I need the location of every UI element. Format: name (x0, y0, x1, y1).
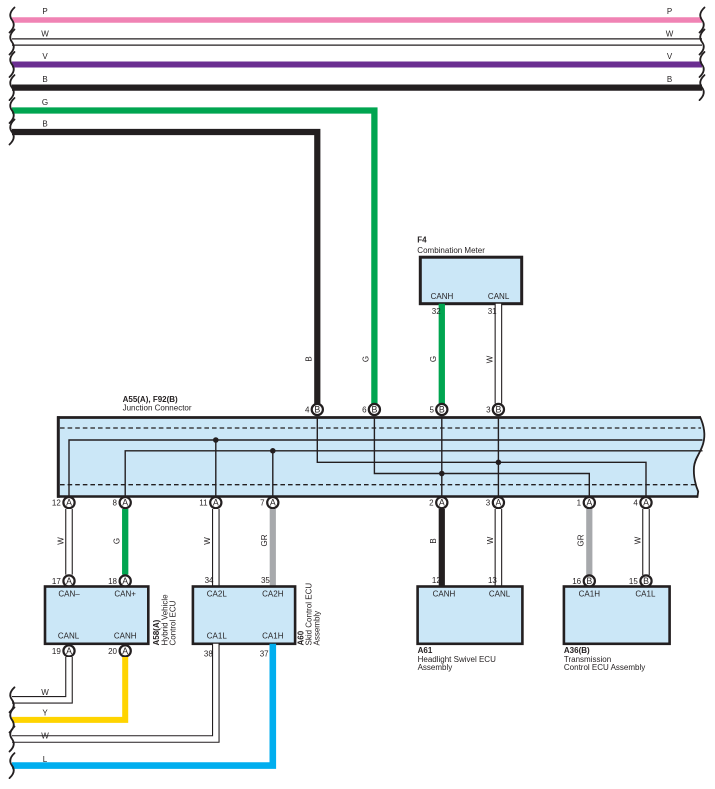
svg-text:B: B (314, 404, 320, 414)
svg-text:G: G (362, 356, 371, 362)
skid control ECU A60 box (193, 583, 322, 646)
pin 2 (A) (429, 497, 447, 508)
svg-text:CA1L: CA1L (207, 632, 228, 641)
svg-text:CA2L: CA2L (207, 589, 228, 598)
pin 17 (A) (52, 575, 75, 586)
pin 3 (A) (486, 497, 504, 508)
svg-text:8: 8 (113, 499, 118, 508)
svg-text:G: G (42, 98, 48, 107)
svg-text:B: B (429, 538, 438, 543)
pin 15 (B) (629, 575, 652, 586)
svg-text:CANH: CANH (114, 632, 137, 641)
junction dot on L1 at 11A (213, 437, 219, 443)
pin 1 (A) (577, 497, 595, 508)
svg-text:A: A (122, 646, 128, 656)
svg-text:Assembly: Assembly (418, 663, 453, 672)
break symbol right P (700, 8, 705, 33)
svg-text:34: 34 (205, 576, 214, 585)
wire W (A58 pin 19 down-left) (12, 657, 69, 700)
svg-text:W: W (486, 355, 495, 363)
pin 11 (A) (199, 497, 221, 508)
svg-text:A: A (586, 498, 592, 508)
svg-text:CA1H: CA1H (579, 589, 601, 598)
svg-text:A: A (495, 498, 501, 508)
svg-text:W: W (666, 30, 674, 39)
svg-text:A: A (643, 498, 649, 508)
pin 7 (A) (260, 497, 278, 508)
svg-text:GR: GR (260, 534, 269, 546)
break symbol left Y (10, 707, 15, 732)
svg-text:B: B (586, 576, 592, 586)
svg-text:A: A (66, 576, 72, 586)
break symbol left L (10, 753, 15, 778)
wire Y (A58 pin 20 down-left, yellow) (12, 657, 125, 720)
svg-text:3: 3 (486, 406, 491, 415)
internal wire 5B-2A vertical (441, 417, 443, 497)
svg-text:13: 13 (488, 576, 497, 585)
svg-text:CA1L: CA1L (635, 589, 656, 598)
svg-text:B: B (495, 404, 501, 414)
break symbol left B2 (10, 120, 15, 145)
wire GR (1A to A36 pin 16) (577, 509, 590, 575)
svg-text:V: V (667, 52, 673, 61)
junction dot on L4 at 5B vertical (439, 471, 445, 477)
svg-text:A61: A61 (418, 646, 433, 655)
svg-text:12: 12 (52, 499, 61, 508)
headlight swivel ECU A61 box (418, 587, 523, 672)
wire W (3A to A61 pin 13) (486, 509, 499, 587)
wire W (A60 pin 38 down-left) (12, 644, 216, 741)
svg-text:CANH: CANH (433, 589, 456, 598)
pin 4 (B) (305, 404, 323, 415)
svg-text:G: G (113, 538, 122, 544)
break symbol left W (bottom) (10, 687, 15, 712)
svg-text:Junction Connector: Junction Connector (123, 404, 192, 413)
svg-text:CANL: CANL (488, 292, 510, 301)
svg-text:A55(A), F92(B): A55(A), F92(B) (123, 395, 178, 404)
svg-text:W: W (41, 731, 49, 740)
pin 8 (A) (113, 497, 131, 508)
svg-text:B: B (667, 75, 672, 84)
internal bus wire L2 (8A-7A, continues right) (125, 451, 702, 497)
svg-text:F4: F4 (417, 236, 427, 245)
svg-text:35: 35 (261, 576, 270, 585)
svg-text:L: L (43, 755, 48, 764)
svg-text:A: A (439, 498, 445, 508)
svg-text:37: 37 (260, 650, 269, 659)
svg-text:Combination Meter: Combination Meter (417, 246, 485, 255)
wire W (12A to A58 pin 17) (56, 509, 69, 575)
junction dot on L2 at 7A (270, 448, 276, 454)
svg-text:18: 18 (108, 577, 117, 586)
svg-text:B: B (439, 404, 445, 414)
wire W (white bus, top row 2) (12, 30, 702, 43)
svg-text:31: 31 (488, 307, 497, 316)
svg-text:16: 16 (572, 577, 581, 586)
svg-text:W: W (41, 688, 49, 697)
break symbol right W (700, 30, 705, 55)
svg-text:Control ECU Assembly: Control ECU Assembly (564, 663, 645, 672)
break symbol right B (700, 75, 705, 100)
svg-text:3: 3 (486, 499, 491, 508)
break symbol left P (10, 8, 15, 33)
transmission control ECU A36(B) box (564, 587, 670, 672)
internal bus wire L4 (6B to 1A with tap 5B/2A) (374, 417, 589, 497)
dashed line bottom inside junction band (60, 484, 696, 486)
svg-text:7: 7 (260, 499, 265, 508)
wire B (2A to A61 pin 12) (429, 509, 442, 587)
combination meter F4 box (417, 236, 521, 304)
break symbol left V (10, 52, 15, 77)
wire G (8A to A58 pin 18) (113, 509, 126, 575)
svg-text:B: B (305, 356, 314, 361)
svg-text:W: W (486, 536, 495, 544)
svg-text:A: A (122, 576, 128, 586)
dashed line top inside junction band (60, 427, 701, 429)
svg-text:W: W (41, 30, 49, 39)
internal bus wire L3 (4B to 4A with tap 3B/3A) (317, 417, 646, 497)
svg-text:P: P (42, 7, 47, 16)
junction dot on L3 at 3B vertical (496, 460, 502, 466)
svg-text:2: 2 (429, 499, 434, 508)
svg-text:Y: Y (42, 709, 48, 718)
svg-text:5: 5 (430, 406, 435, 415)
svg-text:Control ECU: Control ECU (169, 600, 178, 645)
internal bus wire L1 (12A-11A, continues right) (69, 440, 703, 497)
break symbol left B (10, 75, 15, 100)
svg-text:4: 4 (305, 406, 310, 415)
pin 20 (A) (108, 645, 131, 656)
svg-text:CANL: CANL (489, 589, 511, 598)
svg-text:A: A (270, 498, 276, 508)
svg-text:CA2H: CA2H (262, 589, 284, 598)
internal wire 3B-3A vertical (497, 417, 499, 497)
svg-text:P: P (667, 7, 672, 16)
pin 19 (A) (52, 645, 75, 656)
svg-text:A: A (213, 498, 219, 508)
svg-text:15: 15 (629, 577, 638, 586)
svg-text:Assembly: Assembly (313, 611, 322, 646)
svg-text:CANH: CANH (431, 292, 454, 301)
svg-text:A: A (66, 498, 72, 508)
pin 18 (A) (108, 575, 131, 586)
svg-text:V: V (42, 52, 48, 61)
svg-text:38: 38 (204, 650, 213, 659)
pin 16 (B) (572, 575, 595, 586)
break symbol left W (10, 30, 15, 55)
svg-text:6: 6 (362, 406, 367, 415)
wire W (11A to A60 pin 34) (203, 509, 216, 587)
wire P (pink bus, top row 1) (12, 7, 702, 20)
svg-text:4: 4 (633, 499, 638, 508)
svg-text:A: A (122, 498, 128, 508)
pin 3 (B) (486, 404, 504, 415)
svg-text:B: B (371, 404, 377, 414)
svg-text:B: B (42, 120, 47, 129)
break symbol left G (10, 98, 15, 123)
svg-text:12: 12 (432, 576, 441, 585)
svg-text:GR: GR (577, 534, 586, 546)
wire G (F4 CANH pin 32 to junction pin 5B) (429, 304, 442, 404)
svg-text:B: B (42, 75, 47, 84)
svg-text:G: G (429, 356, 438, 362)
svg-text:11: 11 (199, 499, 208, 508)
svg-text:20: 20 (108, 647, 117, 656)
svg-text:17: 17 (52, 577, 61, 586)
svg-text:1: 1 (577, 499, 582, 508)
pin 6 (B) (362, 404, 380, 415)
svg-text:CA1H: CA1H (262, 632, 284, 641)
wire B (black bus, top row 4) (12, 75, 702, 88)
hybrid vehicle control ECU A58(A) box (45, 587, 178, 646)
wire GR (7A to A60 pin 35) (260, 509, 273, 587)
svg-text:32: 32 (432, 307, 441, 316)
svg-text:A36(B): A36(B) (564, 646, 590, 655)
wire G (green, turns down to junction pin 6B) (12, 98, 374, 404)
wire W (4A to A36 pin 15) (633, 509, 646, 575)
svg-text:B: B (643, 576, 649, 586)
svg-text:W: W (203, 537, 212, 545)
break symbol right V (700, 52, 705, 77)
pin 5 (B) (430, 404, 448, 415)
pin 12 (A) (52, 497, 75, 508)
break symbol left W2 (10, 727, 15, 752)
svg-text:19: 19 (52, 647, 61, 656)
wire B (black, turns down to junction pin 4B) (12, 120, 317, 404)
svg-text:CAN–: CAN– (58, 589, 80, 598)
pin 4 (A) (633, 497, 651, 508)
svg-text:CAN+: CAN+ (114, 589, 136, 598)
junction connector A55(A), F92(B) band (57, 395, 704, 498)
wire L (A60 pin 37 down-left, light blue) (12, 644, 273, 766)
svg-text:W: W (633, 536, 642, 544)
wire V (violet bus, top row 3) (12, 52, 702, 65)
svg-text:CANL: CANL (58, 632, 80, 641)
svg-text:W: W (56, 537, 65, 545)
svg-text:A: A (66, 646, 72, 656)
wire W (F4 CANL pin 31 to junction pin 3B) (486, 304, 499, 404)
